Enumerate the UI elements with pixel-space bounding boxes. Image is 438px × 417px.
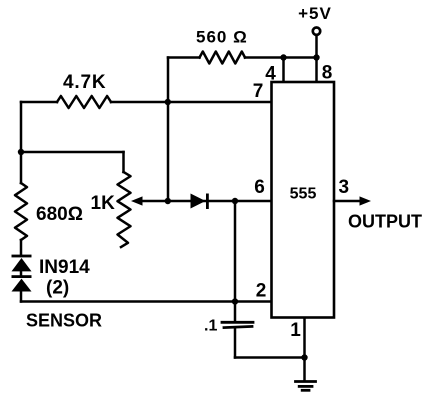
svg-text:6: 6 xyxy=(254,177,265,198)
+5V supply terminal xyxy=(313,28,320,58)
diode D1 IN914 sensor xyxy=(12,255,32,272)
label 560 ohm xyxy=(196,28,248,47)
svg-text:560 Ω: 560 Ω xyxy=(196,28,248,47)
pin label 4 xyxy=(265,64,276,85)
svg-text:IN914: IN914 xyxy=(39,257,90,278)
svg-text:8: 8 xyxy=(322,63,333,84)
wire pin 8 vertical xyxy=(315,58,318,83)
resistor 560 ohm xyxy=(200,52,246,64)
diode D2 IN914 sensor xyxy=(12,275,32,291)
capacitor .1 plates xyxy=(222,322,253,327)
junction wiper line at vertical xyxy=(165,198,171,204)
wire pin 3 output xyxy=(334,200,361,203)
svg-text:4: 4 xyxy=(265,64,276,85)
ground xyxy=(296,382,316,391)
svg-text:SENSOR: SENSOR xyxy=(26,311,102,331)
label SENSOR xyxy=(26,311,102,331)
svg-text:3: 3 xyxy=(339,177,350,198)
junction pin8 supply xyxy=(313,54,319,60)
svg-text:OUTPUT: OUTPUT xyxy=(348,212,422,232)
pin label 1 xyxy=(290,320,301,341)
wire pin 7 horizontal xyxy=(21,101,272,104)
wire sensor line to pin 2 xyxy=(21,300,272,303)
resistor 4.7K xyxy=(57,96,111,108)
svg-text:(2): (2) xyxy=(46,278,69,299)
diode D3 signal diode xyxy=(191,194,209,210)
wire branch to potentiometer top xyxy=(21,152,124,172)
potentiometer 1K body xyxy=(118,172,131,247)
pin label 6 xyxy=(254,177,265,198)
svg-text:7: 7 xyxy=(253,81,264,102)
op-amp U1 555 IC box xyxy=(272,82,335,318)
pin label 3 xyxy=(339,177,350,198)
wire pin 1 vertical xyxy=(303,318,306,381)
label OUTPUT xyxy=(348,212,422,232)
label 680 ohm xyxy=(36,204,83,225)
svg-text:555: 555 xyxy=(290,185,317,202)
wire pin 4 vertical xyxy=(282,58,285,83)
svg-text:.1: .1 xyxy=(204,318,217,335)
wire left rail vertical xyxy=(20,102,23,302)
junction left rail to pot branch xyxy=(18,149,24,155)
junction pin1 ground run xyxy=(301,354,307,360)
junction pin6 node xyxy=(232,198,238,204)
svg-text:680Ω: 680Ω xyxy=(36,204,83,225)
label .1 xyxy=(204,318,217,335)
wire top supply rail y=57.5 xyxy=(168,56,317,59)
potentiometer 1K wiper arrow xyxy=(131,196,143,205)
label 1K xyxy=(91,193,116,214)
wire pin 6 / wiper horizontal xyxy=(141,200,272,203)
label 555 xyxy=(290,185,317,202)
label IN914 xyxy=(39,257,90,278)
pin label 7 xyxy=(253,81,264,102)
label (2) xyxy=(46,278,69,299)
pin label 2 xyxy=(256,281,267,302)
svg-text:1: 1 xyxy=(290,320,301,341)
junction 560/4.7K left rail xyxy=(165,99,171,105)
wire vertical from pin6 node down through capacitor to ground run xyxy=(235,201,305,358)
svg-text:4.7K: 4.7K xyxy=(63,72,106,93)
label +5V xyxy=(298,4,332,23)
output arrowhead xyxy=(360,196,372,205)
svg-text:1K: 1K xyxy=(91,193,116,214)
svg-text:2: 2 xyxy=(256,281,267,302)
pin label 8 xyxy=(322,63,333,84)
junction pin2 sensor line xyxy=(232,298,238,304)
wire left vertical from 560 ohm down to wiper line xyxy=(167,58,170,202)
resistor 680 ohm xyxy=(15,183,27,240)
svg-text:+5V: +5V xyxy=(298,4,332,23)
label 4.7K xyxy=(63,72,106,93)
junction pin4 supply xyxy=(280,54,286,60)
